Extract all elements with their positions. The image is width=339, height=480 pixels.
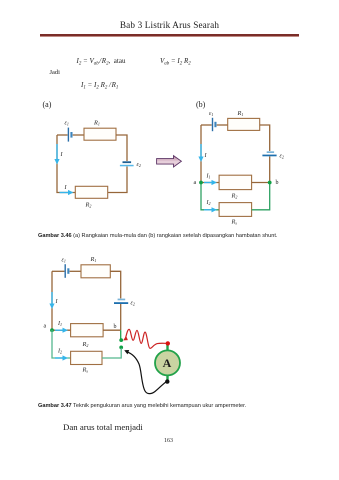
circuit a: resistor R2 box (75, 186, 107, 198)
circuit a: top wire left segment (57, 134, 68, 136)
circuit a: top wire mid segment (73, 134, 84, 136)
circuit c: label I1 (57, 321, 62, 327)
circuit c: label a (44, 324, 47, 330)
svg-text:R1: R1 (237, 110, 244, 117)
word Jadi (50, 69, 60, 76)
header rule thin (40, 35, 299, 38)
circuit a: right wire lower (108, 167, 127, 193)
circuit c: left wire (51, 271, 53, 330)
circuit b: label R1 (237, 110, 244, 117)
circuit c: current arrow I left wire (49, 292, 54, 309)
circuit b: battery E2 (262, 151, 276, 156)
circuit b: label I1 (206, 174, 211, 180)
circuit b: top wire mid segment (217, 124, 228, 126)
circuit a: top wire right + right wire upper (116, 135, 127, 161)
equation Vab = I2 R2 (160, 57, 191, 65)
ammeter red lead wavy wire (125, 329, 167, 348)
circuit c: green shunt branch right up to bottom dot (102, 348, 121, 358)
text Dan arus total menjadi (63, 422, 143, 432)
header rule thick (40, 34, 299, 36)
svg-text:R1: R1 (90, 256, 97, 263)
circuit c: resistor R1 box (81, 265, 110, 278)
svg-text:R2: R2 (82, 341, 89, 348)
svg-text:I1: I1 (206, 174, 211, 180)
circuit b: resistor R2 box (219, 175, 252, 189)
circuit b: middle branch wire R2 to b (252, 182, 270, 184)
circuit c: current arrow I1 (55, 328, 68, 333)
caption Gambar 3.46 (38, 233, 277, 239)
svg-text:A: A (163, 356, 172, 370)
label (b) (196, 100, 206, 109)
circuit b: battery E1 (212, 118, 217, 131)
circuit b: green branch a down and bottom left (201, 183, 219, 210)
block arrow between circuits (157, 156, 182, 167)
circuit a: label epsilon1 (65, 121, 69, 127)
circuit a: label R2 (85, 202, 92, 209)
label (a) (43, 100, 52, 109)
circuit b: label epsilon2 (280, 154, 284, 160)
circuit b: resistor Rs box (219, 203, 252, 217)
circuit b: label epsilon1 (209, 111, 213, 117)
svg-text:Rs: Rs (82, 367, 89, 374)
caption Gambar 3.47 (38, 403, 246, 409)
circuit c: right wire lower to node b (120, 304, 122, 330)
circuit c: node a dot (50, 328, 54, 332)
equation I2 = Vab/R2, atau (77, 57, 126, 65)
circuit b: label a (194, 180, 197, 186)
svg-text:ε2: ε2 (280, 154, 284, 160)
circuit b: green branch bottom right up to b (252, 183, 270, 210)
svg-text:I: I (55, 299, 59, 305)
ammeter black terminal dot (165, 379, 169, 383)
circuit c: resistor Rs box (71, 351, 102, 364)
svg-text:I: I (204, 153, 208, 159)
ammeter body (155, 350, 180, 375)
equation I1 = I2 R2 / R1 (81, 81, 118, 89)
circuit b: label I (204, 153, 208, 159)
svg-text:ε2: ε2 (137, 162, 141, 168)
circuit b: resistor R1 box (228, 118, 260, 130)
circuit c: label R1 (90, 256, 97, 263)
circuit c: label epsilon1 (62, 258, 66, 264)
circuit c: green shunt branch a down bottom (52, 330, 71, 358)
circuit b: current arrow I2 (204, 207, 217, 212)
circuit b: label I2 (206, 200, 211, 206)
circuit c: terminal dot top (119, 338, 123, 342)
svg-text:I: I (64, 185, 68, 191)
circuit b: label b (276, 180, 279, 186)
circuit c: top wire right + right wire upper (110, 271, 120, 298)
circuit a: label I bottom (64, 185, 68, 191)
circuit b: right wire lower to node b (269, 157, 271, 183)
circuit b: current arrow I left wire (198, 144, 203, 162)
svg-text:I: I (60, 152, 64, 158)
svg-text:ε2: ε2 (131, 301, 135, 307)
ammeter black lead wire (127, 352, 167, 394)
circuit a: resistor R1 box (84, 128, 116, 140)
circuit a: current arrow I bottom wire (60, 190, 74, 195)
svg-text:a: a (44, 324, 47, 330)
circuit c: middle branch wire a to R2 (52, 329, 71, 331)
circuit a: label R1 (93, 120, 100, 127)
svg-text:ε1: ε1 (65, 121, 69, 127)
circuit b: top wire right + right wire upper (260, 125, 270, 151)
circuit c: label b (114, 324, 117, 330)
svg-text:Rs: Rs (231, 219, 238, 226)
circuit c: label R2 (82, 341, 89, 348)
circuit c: middle branch wire R2 to b (103, 329, 121, 331)
svg-text:I2: I2 (206, 200, 211, 206)
svg-text:R2: R2 (85, 202, 92, 209)
circuit c: label I (55, 299, 59, 305)
circuit c: top wire mid segment (70, 270, 81, 272)
ammeter bottom stub (166, 375, 168, 382)
circuit a: current arrow I left wire (54, 144, 59, 165)
svg-text:b: b (114, 324, 117, 330)
circuit b: node a dot (199, 181, 203, 185)
circuit b: top wire left segment (201, 124, 212, 126)
page number 163 (164, 438, 173, 444)
circuit b: current arrow I1 (204, 180, 217, 185)
circuit b: label Rs (231, 219, 238, 226)
circuit b: label R2 (231, 193, 238, 200)
svg-text:(a): (a) (43, 100, 52, 109)
circuit c: label Rs (82, 367, 89, 374)
svg-text:a: a (194, 180, 197, 186)
circuit a: label I left (60, 152, 64, 158)
svg-text:I2: I2 (57, 349, 62, 355)
svg-text:I1: I1 (57, 321, 62, 327)
circuit c: resistor R2 box (71, 324, 104, 337)
circuit c: terminal dot bottom (119, 346, 123, 350)
ammeter top stub (166, 344, 168, 352)
circuit c: label I2 (57, 349, 62, 355)
circuit c: battery E1 (65, 264, 70, 278)
ammeter red lead arrowhead (123, 336, 128, 341)
circuit a: battery E2 (120, 161, 134, 166)
circuit c: battery E2 (114, 299, 128, 304)
svg-text:ε1: ε1 (62, 258, 66, 264)
svg-text:b: b (276, 180, 279, 186)
circuit a: bottom wire left + left wire (57, 135, 75, 193)
circuit a: battery E1 (68, 128, 73, 142)
circuit b: middle branch wire a to R2 (201, 182, 219, 184)
ammeter red terminal dot (166, 341, 170, 345)
circuit c: current arrow I2 (55, 355, 68, 360)
header title (0, 20, 339, 30)
ammeter black lead arrowhead (124, 350, 129, 354)
svg-text:ε1: ε1 (209, 111, 213, 117)
ammeter label A (163, 356, 172, 370)
svg-text:R2: R2 (231, 193, 238, 200)
svg-text:R1: R1 (93, 120, 100, 127)
circuit a: label epsilon2 (137, 162, 141, 168)
circuit c: label epsilon2 (131, 301, 135, 307)
circuit c: green wire b down to top terminal dot (120, 330, 122, 339)
circuit b: left wire (200, 125, 202, 183)
circuit c: top wire left segment (52, 270, 64, 272)
svg-text:(b): (b) (196, 100, 206, 109)
circuit b: node b dot (268, 181, 272, 185)
